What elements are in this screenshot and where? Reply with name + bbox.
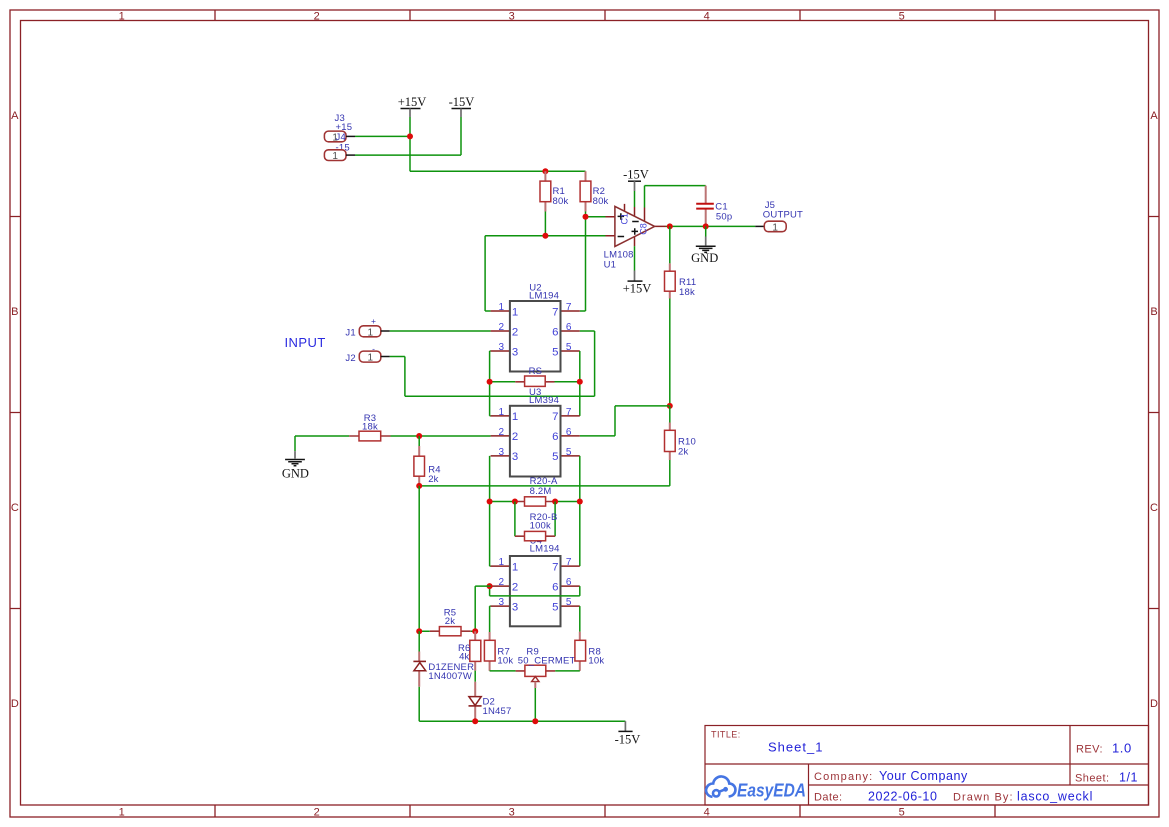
resistor R20-A: [490, 476, 580, 506]
svg-text:INPUT: INPUT: [285, 335, 326, 350]
svg-text:6: 6: [566, 427, 572, 438]
svg-text:2022-06-10: 2022-06-10: [868, 790, 937, 804]
svg-text:50_CERMET: 50_CERMET: [518, 656, 576, 667]
wire R4 bottom down to R5: [418, 486, 420, 631]
connector J3 labels: [335, 113, 353, 154]
IC U3: [491, 387, 580, 477]
svg-text:18k: 18k: [679, 287, 695, 298]
svg-text:OUTPUT: OUTPUT: [763, 209, 803, 220]
svg-text:Sheet:: Sheet:: [1075, 773, 1110, 785]
connector J3 pin 1: [324, 131, 355, 143]
node junction J3/+15V: [407, 133, 413, 139]
svg-text:+: +: [371, 316, 376, 326]
wire R11 bottom to R10 node: [669, 299, 671, 406]
svg-text:LM194: LM194: [530, 544, 560, 555]
wire U4 pin3 down to R7: [490, 606, 491, 632]
svg-text:3: 3: [499, 597, 505, 608]
node junction R20 row outer right: [577, 499, 583, 505]
svg-text:10k: 10k: [497, 656, 513, 667]
svg-text:J2: J2: [345, 353, 355, 364]
wire U4 pin2 route to pin6: [490, 586, 580, 596]
svg-text:2: 2: [314, 806, 320, 818]
wire R2 node down to U2 pin7: [580, 217, 586, 311]
svg-text:TITLE:: TITLE:: [711, 730, 741, 740]
svg-text:2: 2: [499, 577, 505, 588]
resistor R20-B: [515, 502, 558, 541]
svg-text:GND: GND: [691, 251, 718, 265]
wire +15V vertical to rail: [409, 117, 411, 171]
svg-text:4k: 4k: [459, 652, 469, 663]
svg-text:B: B: [1150, 306, 1157, 318]
svg-text:2: 2: [314, 11, 320, 23]
power +15V symbol top: [398, 95, 427, 117]
svg-text:B: B: [11, 306, 18, 318]
svg-text:-15V: -15V: [623, 168, 649, 182]
node junction output: [667, 223, 673, 229]
svg-text:2: 2: [512, 326, 518, 338]
svg-text:7: 7: [566, 557, 572, 568]
node junction R9 wiper bottom: [532, 718, 538, 724]
svg-text:1N457: 1N457: [483, 706, 512, 717]
svg-text:1: 1: [499, 302, 505, 313]
resistor R8: [575, 632, 604, 671]
wire U2 pin3 to RS left to U3 pin1: [490, 351, 491, 416]
svg-text:5: 5: [899, 11, 905, 23]
svg-text:2k: 2k: [445, 616, 455, 627]
row letters left: [11, 110, 19, 710]
diode D2: [469, 671, 512, 722]
op-amp U1: [604, 204, 666, 270]
svg-text:D: D: [1150, 698, 1158, 710]
svg-text:3: 3: [512, 346, 518, 358]
svg-text:80k: 80k: [553, 196, 569, 207]
IC U2: [491, 282, 580, 371]
svg-text:Date:: Date:: [814, 792, 843, 804]
wire U4 pin2 node left and down to R5: [475, 586, 490, 631]
wire R8 bottom to R9: [555, 670, 580, 672]
resistor R6: [458, 631, 481, 671]
svg-text:Company:: Company:: [814, 771, 873, 783]
node junction R2 bottom: [583, 214, 589, 220]
frame ticks left: [10, 217, 21, 609]
svg-text:LM194: LM194: [529, 290, 559, 301]
svg-text:1: 1: [512, 411, 518, 423]
node junction R20-A right: [552, 499, 558, 505]
frame ticks bottom: [215, 805, 995, 817]
svg-text:1: 1: [332, 151, 338, 162]
svg-text:7: 7: [552, 561, 558, 573]
svg-text:80k: 80k: [593, 196, 609, 207]
frame ticks right: [1149, 217, 1160, 609]
svg-text:6: 6: [552, 326, 558, 338]
svg-text:1: 1: [119, 11, 125, 23]
resistor RS: [490, 366, 580, 387]
IC U4: [491, 556, 580, 626]
svg-text:1: 1: [368, 353, 374, 364]
svg-text:GND: GND: [282, 466, 309, 480]
node junction U4 pin2: [487, 583, 493, 589]
node junction C1/GND: [703, 223, 709, 229]
svg-text:C: C: [1150, 502, 1158, 514]
node junction R1 bottom: [542, 233, 548, 239]
svg-text:5: 5: [566, 342, 572, 353]
svg-text:2: 2: [512, 581, 518, 593]
svg-text:1: 1: [512, 306, 518, 318]
svg-text:4: 4: [704, 11, 710, 23]
node junction D2 bottom: [472, 718, 478, 724]
svg-text:1N4007W: 1N4007W: [428, 671, 472, 682]
resistor R5: [419, 608, 475, 636]
svg-text:A: A: [1150, 110, 1158, 122]
svg-text:C1: C1: [620, 213, 630, 225]
wire R1 bottom to inverting input rail: [544, 212, 546, 236]
svg-text:5: 5: [899, 806, 905, 818]
wire inverting input rail: [485, 236, 605, 311]
svg-text:8.2M: 8.2M: [530, 486, 552, 497]
svg-text:D: D: [11, 698, 19, 710]
svg-text:1/1: 1/1: [1119, 771, 1138, 785]
wire R10 node to U3 pin6: [580, 406, 670, 436]
node junction R20 row outer left: [487, 499, 493, 505]
svg-text:J4: J4: [336, 132, 346, 143]
wire R3 to U3 pin2: [391, 435, 491, 437]
svg-text:LM394: LM394: [529, 395, 559, 406]
svg-text:Your Company: Your Company: [879, 769, 968, 783]
resistor R1: [540, 171, 568, 211]
frame ticks top: [215, 10, 995, 21]
wire comp pin to C1: [645, 186, 706, 208]
svg-text:2: 2: [499, 322, 505, 333]
ground GND left: [282, 436, 309, 480]
svg-text:3: 3: [499, 342, 505, 353]
svg-text:6: 6: [552, 581, 558, 593]
power +15V op-amp: [623, 246, 652, 295]
power -15V op-amp: [623, 168, 649, 207]
svg-text:2: 2: [499, 427, 505, 438]
svg-text:2: 2: [512, 431, 518, 443]
svg-text:5: 5: [566, 597, 572, 608]
wire output rail: [666, 225, 755, 227]
resistor R3: [295, 413, 391, 441]
wire R9 wiper down: [534, 688, 536, 721]
svg-text:6: 6: [566, 322, 572, 333]
connector J1: [345, 316, 389, 338]
svg-text:-15V: -15V: [449, 95, 475, 109]
power -15V symbol bottom: [615, 721, 641, 746]
svg-text:18k: 18k: [362, 422, 378, 433]
svg-text:lasco_weckl: lasco_weckl: [1017, 790, 1093, 804]
wire bottom rail: [419, 720, 625, 722]
svg-text:3: 3: [512, 601, 518, 613]
svg-text:10k: 10k: [588, 656, 604, 667]
svg-text:REV:: REV:: [1076, 744, 1103, 756]
svg-text:100k: 100k: [530, 520, 551, 531]
svg-text:Sheet_1: Sheet_1: [768, 740, 823, 755]
svg-text:5: 5: [566, 447, 572, 458]
svg-text:C8: C8: [638, 223, 648, 235]
node junction R10 top: [667, 403, 673, 409]
wire +15V rail to R1 R2: [410, 170, 586, 172]
node junction R4 bottom: [416, 483, 422, 489]
column numbers top: [119, 11, 905, 23]
svg-text:5: 5: [552, 601, 558, 613]
svg-text:6: 6: [566, 577, 572, 588]
power -15V symbol top: [449, 95, 475, 117]
wire J1 to U2 pin2: [390, 330, 491, 332]
resistor R11: [665, 226, 697, 298]
wire R2 bottom to +input: [586, 212, 606, 217]
svg-text:2k: 2k: [678, 446, 688, 457]
wire U3 pin3 down to R20 row to U4 pin1: [490, 456, 491, 566]
svg-text:C: C: [11, 502, 19, 514]
wire U3 pin5 down to R20 row to U4 pin7: [579, 456, 581, 566]
svg-text:2k: 2k: [428, 474, 438, 485]
node junction R1 top: [542, 168, 548, 174]
wire R10 bottom to long rail: [669, 460, 671, 486]
diode D1 zener: [413, 631, 474, 721]
node junction R3/R4: [416, 433, 422, 439]
svg-text:7: 7: [566, 407, 572, 418]
svg-text:A: A: [11, 110, 19, 122]
svg-text:3: 3: [509, 11, 515, 23]
wire R7 bottom to R9: [490, 670, 516, 672]
row letters right: [1150, 110, 1158, 710]
svg-text:6: 6: [552, 431, 558, 443]
svg-text:1: 1: [368, 327, 374, 338]
ground GND right: [691, 226, 718, 264]
svg-text:1: 1: [499, 557, 505, 568]
svg-text:7: 7: [566, 302, 572, 313]
svg-text:7: 7: [552, 411, 558, 423]
wire -15V vertical: [460, 117, 462, 155]
wire J4 pin to -15V: [355, 154, 461, 156]
capacitor C1: [696, 186, 732, 227]
node junction R5 left: [416, 628, 422, 634]
svg-text:Drawn By:: Drawn By:: [953, 792, 1014, 804]
node junction R5 right: [472, 628, 478, 634]
wire J3 pin1 to +15V: [355, 135, 410, 137]
column numbers bottom: [119, 806, 905, 818]
svg-text:5: 5: [552, 451, 558, 463]
svg-text:3: 3: [499, 447, 505, 458]
svg-text:3: 3: [512, 451, 518, 463]
svg-text:+15V: +15V: [398, 95, 427, 109]
connector J4 pin 1: [324, 150, 355, 162]
resistor R10: [665, 406, 697, 460]
connector J2: [345, 343, 389, 364]
svg-text:+15V: +15V: [623, 282, 652, 296]
svg-text:-15V: -15V: [615, 733, 641, 747]
wire long horizontal rail: [419, 485, 670, 487]
wire U2 pin5 to RS right to U3 pin7: [579, 351, 581, 416]
potentiometer R9: [516, 647, 576, 688]
svg-text:1: 1: [499, 407, 505, 418]
EasyEDA logo: [706, 776, 735, 796]
svg-text:4: 4: [704, 806, 710, 818]
svg-text:3: 3: [509, 806, 515, 818]
resistor R7: [484, 632, 513, 671]
node junction RS right: [577, 379, 583, 385]
node junction R20-A left: [512, 499, 518, 505]
connector J5: [755, 200, 803, 233]
svg-text:1: 1: [512, 561, 518, 573]
resistor R4: [414, 436, 441, 486]
svg-text:EasyEDA: EasyEDA: [737, 781, 806, 801]
wire J2 route to U2 pin6: [390, 331, 595, 396]
svg-text:50p: 50p: [716, 212, 732, 223]
svg-text:7: 7: [552, 306, 558, 318]
svg-text:1.0: 1.0: [1112, 741, 1132, 756]
svg-text:J1: J1: [345, 328, 355, 339]
svg-text:1: 1: [772, 223, 778, 234]
resistor R2: [580, 171, 608, 211]
title block: [705, 726, 1149, 806]
svg-text:1: 1: [119, 806, 125, 818]
svg-text:RS: RS: [529, 366, 543, 377]
wire U4 pin5 down to R8: [579, 606, 581, 632]
svg-text:U1: U1: [604, 259, 617, 270]
node junction RS left: [487, 379, 493, 385]
svg-text:5: 5: [552, 346, 558, 358]
